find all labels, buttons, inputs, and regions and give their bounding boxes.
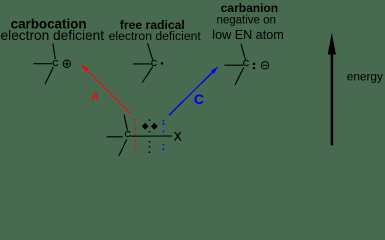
- svg-text:C: C: [151, 58, 157, 68]
- svg-text:C: C: [194, 91, 204, 107]
- bottom C-X structure: [107, 115, 172, 156]
- minus charge symbol: [261, 62, 268, 69]
- svg-text:electron deficient: electron deficient: [1, 28, 105, 43]
- wire: bottom lower-left bond: [119, 139, 127, 156]
- wire: radical left bond: [133, 63, 151, 65]
- wire: C-X bond: [131, 135, 173, 137]
- wire: radical top bond: [148, 43, 153, 60]
- red dotted homolysis line: [135, 119, 137, 151]
- carbanion structure: [224, 44, 245, 85]
- svg-text:A: A: [91, 90, 99, 102]
- svg-text:C: C: [125, 129, 131, 139]
- wire: carbanion top bond: [241, 44, 246, 60]
- wire: carbocation left bond: [34, 63, 52, 65]
- red arrow A: [81, 64, 131, 114]
- wire: radical lower-left bond: [142, 67, 152, 83]
- wire: bottom left bond: [107, 136, 123, 138]
- blue arrow C: [169, 67, 218, 116]
- wire: carbanion lower-left bond: [235, 68, 244, 86]
- svg-text:carbanion: carbanion: [221, 1, 278, 15]
- free radical structure: [133, 43, 153, 83]
- svg-text:negative on: negative on: [216, 14, 275, 26]
- energy axis arrow: [328, 33, 336, 146]
- carbocation structure: [34, 44, 56, 85]
- svg-text:electron deficient: electron deficient: [109, 29, 202, 43]
- blue dotted line: [163, 120, 165, 150]
- plus charge symbol: [63, 60, 70, 67]
- radical electron dot: [161, 62, 163, 64]
- wire: bottom top bond: [124, 115, 128, 131]
- svg-text:low EN atom: low EN atom: [212, 28, 283, 42]
- black dotted line: [149, 119, 151, 153]
- svg-text:energy: energy: [347, 69, 383, 83]
- lone pair dots: [253, 63, 255, 65]
- wire: carbanion left bond: [224, 64, 243, 66]
- svg-text:C: C: [243, 58, 249, 68]
- svg-text:C: C: [52, 58, 58, 68]
- electron pair diamonds: [142, 123, 158, 130]
- wire: carbocation lower-left bond: [45, 67, 53, 84]
- svg-text:X: X: [174, 131, 182, 143]
- wire: carbocation top bond: [53, 44, 55, 59]
